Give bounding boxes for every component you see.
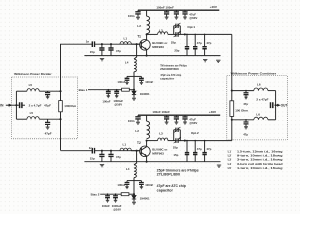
svg-text:L3: L3 <box>159 131 163 135</box>
svg-text:100n: 100n <box>128 14 135 18</box>
capacitor 1n coupling stage2 <box>92 148 94 154</box>
capacitor 2x4.7pF input coupling <box>20 102 22 108</box>
capacitor 47p combiner bottom <box>245 119 247 121</box>
node combiner top junction <box>231 90 233 92</box>
capacitor 100nF bias left stage1 <box>127 75 134 77</box>
svg-text:47pF: 47pF <box>44 104 51 108</box>
node divider bottom junction <box>59 118 61 120</box>
inductor L4 stage2 bias choke <box>134 165 136 178</box>
svg-text:L3: L3 <box>159 28 163 32</box>
wire ground line stage1 <box>84 55 220 57</box>
capacitor 47p output shunt 2 stage1 <box>194 34 196 46</box>
svg-text:47pF: 47pF <box>45 131 52 135</box>
svg-text:L5: L5 <box>228 166 232 170</box>
ground symbol below input caps <box>100 58 104 60</box>
inductor L6 combiner bottom <box>254 117 268 120</box>
svg-text:@63V: @63V <box>189 121 197 125</box>
svg-text:Opt.1: Opt.1 <box>187 25 195 29</box>
node input cap 1 junction stage2 <box>101 150 103 152</box>
svg-text:100nF: 100nF <box>117 183 125 187</box>
wire L4 to bias junction stage1 <box>133 72 135 90</box>
wire emitter stage1 <box>146 49 148 55</box>
wire collector to L3 <box>147 33 158 35</box>
resistor 100 Ohm combiner <box>231 91 233 101</box>
wire stage1 base line <box>95 43 140 45</box>
svg-text:47p: 47p <box>206 147 211 151</box>
ground symbol stage2 right <box>217 165 221 167</box>
wire collector to L3 stage2 <box>147 140 158 142</box>
svg-text:100nF 100nF: 100nF 100nF <box>152 110 170 114</box>
capacitor 100nF bias left stage2 <box>127 180 134 182</box>
capacitor output shunt 1 stage2 <box>186 141 188 153</box>
capacitor output coupling combiner <box>275 104 276 106</box>
capacitor 100nF bias line stage2 <box>107 193 109 195</box>
wire base drop stage1 <box>134 44 137 59</box>
transistor T1 <box>140 40 151 51</box>
ground symbol stage1 right <box>216 60 220 62</box>
wire trimmer to node <box>178 33 232 35</box>
node input junction <box>15 104 17 106</box>
inductor L3 stage1 <box>158 32 168 35</box>
transistor T2 <box>140 146 151 157</box>
capacitor 47p output shunt 3 stage2 <box>204 141 206 153</box>
capacitor 47pF divider bottom <box>47 119 49 122</box>
capacitor trimmer series stage2 <box>176 138 178 143</box>
capacitor 47pF input shunt 1 <box>101 44 103 48</box>
ground symbol stage1 mid <box>203 59 207 61</box>
wire combiner top branch <box>232 90 254 92</box>
wire collector stage2 <box>146 141 148 147</box>
svg-text:+40V: +40V <box>209 110 217 114</box>
wire L1 to base <box>131 43 139 45</box>
capacitor 100n rail left stage1 <box>137 10 139 12</box>
node bias junction stage2 <box>133 193 135 195</box>
svg-text:2TL/80PL/800: 2TL/80PL/800 <box>157 173 180 177</box>
diode 1N4001 stage2 <box>133 194 135 195</box>
wire output stage2 to combiner <box>231 120 233 141</box>
wire emitter stage2 <box>146 156 148 162</box>
inductor L1 stage1 <box>120 42 131 45</box>
svg-text:Wilkinson Power Combiner: Wilkinson Power Combiner <box>231 71 277 75</box>
wire L1 to base stage2 <box>131 150 139 152</box>
capacitor trimmer series stage1 <box>176 32 178 37</box>
wire divider bottom branch <box>16 118 27 120</box>
svg-text:1N4001: 1N4001 <box>140 92 150 96</box>
capacitor 100nF rail B stage2 <box>175 115 177 117</box>
wire L3 to trimmer stage2 <box>168 140 176 142</box>
svg-text:MRF963: MRF963 <box>152 151 164 155</box>
capacitor 1000uF bias line stage2 <box>115 193 117 195</box>
wire combiner bottom branch <box>232 119 254 121</box>
svg-text:15p: 15p <box>173 153 178 157</box>
wire divider to stage1 input <box>60 44 62 91</box>
wire L4 to bias junction stage2 <box>133 178 135 195</box>
svg-text:L6: L6 <box>256 112 260 116</box>
capacitor 100nF bias right stage2 <box>134 180 141 182</box>
wire collector stage1 <box>146 34 148 40</box>
node matching stage2 <box>184 140 186 142</box>
svg-text:100 Ohm: 100 Ohm <box>235 108 248 112</box>
capacitor 47p output shunt 3 stage1 <box>204 34 206 46</box>
svg-text:15p: 15p <box>90 157 95 161</box>
node matching stage1 <box>184 33 186 35</box>
svg-text:Opt.2: Opt.2 <box>191 131 199 135</box>
inductor L1 stage2 <box>120 148 131 151</box>
capacitor 100nF bias line stage1 <box>108 89 110 91</box>
capacitor 47pF input shunt 2 stage2 <box>110 151 112 155</box>
node input cap 1 junction <box>101 43 103 45</box>
svg-text:100nF: 100nF <box>102 100 110 104</box>
svg-text:47p: 47p <box>116 155 121 159</box>
node base junction stage1 <box>136 43 138 45</box>
svg-text:2 x 47pF: 2 x 47pF <box>256 97 268 101</box>
svg-text:capacitor: capacitor <box>157 188 174 192</box>
node emitter ground stage1 <box>146 55 148 57</box>
wire +40V rail stage2 <box>138 114 220 116</box>
svg-text:L5: L5 <box>30 111 34 115</box>
wire bias line stage2 <box>100 193 121 195</box>
inductor L2 stage2 choke <box>147 121 150 138</box>
capacitor 47pF input shunt 2 <box>110 44 112 48</box>
svg-text:L4: L4 <box>125 60 129 64</box>
svg-text:2SC/80P/300: 2SC/80P/300 <box>160 67 179 71</box>
svg-text:100n: 100n <box>128 119 135 123</box>
inductor L5 divider top <box>27 89 39 92</box>
svg-text:25p: 25p <box>174 48 179 52</box>
svg-text:47p: 47p <box>197 147 202 151</box>
svg-text:Bias 2: Bias 2 <box>91 193 100 197</box>
svg-text:L4: L4 <box>126 167 130 171</box>
wire input with arrowhead <box>6 104 17 106</box>
node combiner output junction <box>275 104 277 106</box>
capacitor trimmer parallel loop stage1 <box>173 26 175 35</box>
capacitor output shunt 1 stage1 <box>186 34 188 46</box>
wire +40V rail stage1 <box>138 9 219 11</box>
capacitor 1n coupling stage1 <box>92 41 94 47</box>
resistor bias stage2 <box>121 193 129 196</box>
dashed box Wilkinson Power Divider <box>12 77 78 139</box>
svg-text:L1: L1 <box>123 143 127 147</box>
svg-text:L6: L6 <box>257 83 261 87</box>
wire OUT with arrowhead <box>276 104 280 106</box>
svg-text:25p: 25p <box>173 146 178 150</box>
wire base drop stage2 <box>134 151 137 165</box>
wire combiner output vertical <box>275 91 277 120</box>
diode 1N4001 stage1 <box>133 90 135 91</box>
svg-text:15p: 15p <box>90 50 95 54</box>
inductor L3 stage2 <box>158 138 168 141</box>
svg-text:@63V: @63V <box>189 16 197 20</box>
capacitor 47pF divider top <box>47 91 49 92</box>
wire divider to stage2 input <box>60 119 62 150</box>
node collector junction stage2 <box>146 140 148 142</box>
node emitter ground stage2 <box>146 161 148 163</box>
capacitor 100nF rail A stage2 <box>166 115 168 117</box>
inductor L4 stage1 bias choke <box>134 59 136 72</box>
capacitor 100nF rail B stage1 <box>175 10 177 12</box>
node base junction stage2 <box>136 150 138 152</box>
ground symbol below input caps stage2 <box>100 165 104 167</box>
svg-text:100Ohm: 100Ohm <box>64 104 76 108</box>
svg-text:@16V: @16V <box>114 102 122 106</box>
resistor 100 Ohm divider <box>60 91 62 100</box>
svg-text:MRF963: MRF963 <box>152 45 164 49</box>
svg-text:25p: 25p <box>171 41 176 45</box>
inductor L5 divider bottom <box>27 117 39 120</box>
capacitor 47uF rail stage2 <box>184 115 186 117</box>
wire divider split vertical <box>15 91 17 119</box>
svg-text:100nF: 100nF <box>145 80 153 84</box>
wire divider top branch <box>16 90 27 92</box>
capacitor 47pF input shunt 1 stage2 <box>101 151 103 155</box>
svg-text:Wilkinson Power Divider: Wilkinson Power Divider <box>14 72 52 76</box>
svg-text:100nF 100nF: 100nF 100nF <box>156 5 174 9</box>
svg-text:@16V: @16V <box>113 207 121 211</box>
wire stage2 base line <box>95 150 140 152</box>
node bias junction stage1 <box>133 89 135 91</box>
svg-text:Bias 1: Bias 1 <box>79 88 88 92</box>
wire ground line stage2 <box>84 161 220 163</box>
wire output stage1 to combiner <box>231 34 233 90</box>
node collector junction stage1 <box>146 33 148 35</box>
inductor L6 combiner top <box>254 88 268 91</box>
svg-text:T2: T2 <box>137 141 141 145</box>
svg-text:L1: L1 <box>124 36 128 40</box>
svg-text:OUT: OUT <box>281 104 288 108</box>
capacitor 100nF rail A stage1 <box>166 10 168 12</box>
node input cap 2 junction stage2 <box>110 150 112 152</box>
svg-text:1n: 1n <box>89 146 93 150</box>
svg-text:47p: 47p <box>116 49 121 53</box>
capacitor 47p combiner top <box>245 90 247 92</box>
svg-text:L2: L2 <box>135 129 139 133</box>
resistor bias stage1 <box>122 88 130 91</box>
svg-text:47p: 47p <box>243 102 248 106</box>
svg-text:47p: 47p <box>206 41 211 45</box>
svg-text:L5: L5 <box>29 83 33 87</box>
svg-text:1n: 1n <box>86 39 90 43</box>
svg-text:100nF: 100nF <box>117 80 125 84</box>
svg-text:100nF: 100nF <box>145 183 153 187</box>
node input cap 2 junction <box>110 43 112 45</box>
svg-text:1-turn, 10mm i.d., 16swg: 1-turn, 10mm i.d., 16swg <box>237 166 283 170</box>
svg-text:2 x 4.7pF: 2 x 4.7pF <box>29 104 42 108</box>
svg-text:47p: 47p <box>197 41 202 45</box>
dashed box Wilkinson Power Combiner <box>227 76 287 140</box>
capacitor 47uF rail stage1 <box>184 10 186 12</box>
wire trimmer to node stage2 <box>178 140 232 142</box>
node divider top junction <box>59 90 61 92</box>
capacitor 100nF bias right stage1 <box>134 75 141 77</box>
svg-text:47p: 47p <box>243 132 248 136</box>
wire bias line stage1 <box>88 89 122 91</box>
svg-text:+40V: +40V <box>210 5 218 9</box>
svg-text:T1: T1 <box>137 34 141 38</box>
capacitor 1000uF bias line stage1 <box>116 89 118 91</box>
inductor L2 stage1 choke <box>147 16 150 33</box>
svg-text:1N4001: 1N4001 <box>140 196 150 200</box>
node combiner bottom junction <box>231 119 233 121</box>
svg-text:100nF: 100nF <box>102 204 110 208</box>
wire L3 to trimmer <box>168 33 176 35</box>
capacitor 100n rail left stage2 <box>137 115 139 117</box>
capacitor 47p output shunt 2 stage2 <box>194 141 196 153</box>
svg-text:capacitor: capacitor <box>160 77 175 81</box>
capacitor trimmer parallel loop stage2 <box>173 130 175 141</box>
svg-text:L2: L2 <box>137 24 141 28</box>
